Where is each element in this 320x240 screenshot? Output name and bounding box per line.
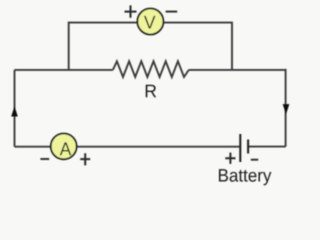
wire: bottom rail from battery to right vertical xyxy=(248,146,285,148)
ammeter label A xyxy=(60,142,72,155)
ammeter plus sign xyxy=(80,153,90,165)
wire: main rail right of resistor xyxy=(189,69,286,71)
current arrow (down) on right wire xyxy=(283,104,290,114)
wire: main rail left of resistor xyxy=(15,69,113,71)
battery short (negative) plate xyxy=(247,140,249,154)
resistor value label R xyxy=(146,85,156,97)
voltmeter plus sign xyxy=(125,5,137,17)
ammeter A circle xyxy=(51,134,77,160)
battery plus sign xyxy=(225,153,235,164)
battery long (positive) plate xyxy=(239,134,241,162)
wire: right vertical xyxy=(285,69,287,147)
wire: voltmeter branch (left riser, top rail, right riser) xyxy=(69,23,232,70)
resistor R xyxy=(113,61,189,77)
wire: bottom rail left (through ammeter) to battery xyxy=(15,146,241,148)
battery minus sign xyxy=(251,159,258,161)
battery name label xyxy=(219,169,271,185)
voltmeter U=V circle xyxy=(137,9,163,35)
voltmeter label V xyxy=(144,16,156,29)
current arrow (up) on left wire xyxy=(11,106,18,116)
wire: left vertical xyxy=(14,70,16,147)
voltmeter minus sign xyxy=(166,11,178,13)
ammeter minus sign xyxy=(40,158,49,160)
